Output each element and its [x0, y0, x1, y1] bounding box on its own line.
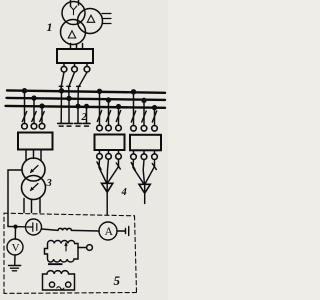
- svg-text:2: 2: [81, 112, 88, 123]
- contacts below box A: [97, 150, 122, 159]
- svg-text:5: 5: [114, 273, 121, 288]
- HF generator unit W2: [43, 271, 75, 290]
- arrow in T3 lower winding: [30, 184, 38, 192]
- wire T3 to HF cabinet: [8, 170, 22, 227]
- dashed cabinet 5 border: [4, 213, 137, 293]
- isolator contacts above box A: [97, 125, 103, 131]
- delta symbol in T1 right winding: [87, 15, 94, 22]
- instrument P1: [26, 219, 42, 235]
- left breaker box: [18, 133, 53, 150]
- ground: [9, 266, 21, 271]
- wires left box to regulating transformer: [25, 150, 27, 161]
- voltmeter V: [7, 239, 23, 255]
- wire: [72, 229, 100, 232]
- wire: [42, 229, 59, 230]
- coupling inductor L1: [58, 228, 72, 230]
- svg-text:4: 4: [121, 187, 127, 198]
- wire to terminal: [78, 247, 87, 249]
- disconnector blades to buses: [61, 72, 64, 87]
- svg-text:1: 1: [47, 20, 53, 34]
- wires T3 down to cabinet: [23, 199, 25, 213]
- wire: [117, 230, 125, 232]
- isolator contacts above left box: [22, 123, 28, 129]
- left feeder bay drops from buses: [22, 91, 44, 124]
- contacts below box B: [131, 150, 158, 159]
- terminal gap: [125, 229, 127, 234]
- busbar A: [7, 90, 165, 92]
- HF filter winding W1: [45, 241, 79, 263]
- K1 output stubs and isolator contacts: [61, 63, 90, 72]
- core bar: [48, 263, 63, 265]
- surge arrester 2c: [75, 106, 82, 126]
- converging line switches bay B: [133, 160, 144, 185]
- outgoing line arrow bay A: [102, 183, 113, 192]
- transformer T1 (three-winding): [61, 2, 103, 45]
- terminal: [87, 245, 93, 251]
- surge arrester 2a: [58, 91, 65, 126]
- converging line switches bay A: [99, 159, 107, 183]
- breaker box K1: [57, 49, 93, 63]
- svg-text:3: 3: [46, 178, 52, 189]
- surge arrester 2d: [83, 106, 90, 126]
- arrow in T3 upper winding: [30, 166, 38, 174]
- wires T1 to breaker box: [70, 44, 72, 50]
- measuring wire: [8, 226, 26, 228]
- breaker box B: [130, 135, 161, 151]
- delta symbol in T1 bottom winding: [68, 31, 75, 38]
- tuning arrow: [64, 242, 67, 252]
- feeder bay A drops: [97, 91, 120, 125]
- outgoing line arrow bay B: [139, 184, 150, 193]
- incoming overhead line: [70, 0, 72, 6]
- wire junction node: [13, 225, 17, 229]
- isolator contacts above box B: [131, 126, 137, 132]
- feeder bay B drops: [131, 92, 156, 126]
- ammeter A: [99, 222, 117, 240]
- regulating transformer T3: [22, 158, 45, 181]
- voltmeter branch: [14, 227, 16, 239]
- breaker box A: [95, 135, 125, 151]
- bus junction dots: [22, 88, 157, 110]
- terminal b: [66, 282, 71, 287]
- svg-text:V: V: [12, 242, 20, 254]
- wye symbol in T1 top winding: [70, 6, 77, 15]
- svg-text:A: A: [105, 226, 114, 238]
- terminal a: [49, 282, 54, 287]
- surge arrester 2b: [66, 98, 73, 126]
- busbar B: [7, 98, 166, 100]
- busbar C: [6, 106, 166, 108]
- T1 tertiary taps: [102, 14, 111, 24]
- sine mark: [57, 287, 64, 290]
